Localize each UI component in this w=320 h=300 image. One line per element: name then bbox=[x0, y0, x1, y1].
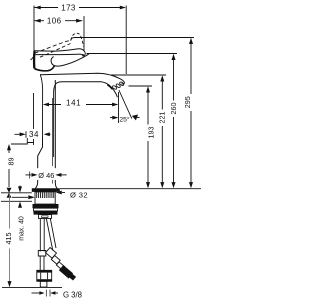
dim 106 text mask bbox=[44, 16, 65, 26]
dim 221 bottom arrow bbox=[160, 182, 164, 188]
hose2 elbow bbox=[46, 248, 57, 259]
handle top edge bbox=[34, 49, 77, 51]
dashed raised nose arc bbox=[71, 33, 81, 40]
svg-text:173: 173 bbox=[61, 3, 76, 12]
dim 173 right arrow bbox=[120, 6, 126, 10]
svg-text:260: 260 bbox=[169, 103, 178, 115]
basin left edge down bbox=[53, 92, 55, 157]
34 bracket to 89 leader bbox=[11, 138, 34, 145]
svg-text:max. 40: max. 40 bbox=[19, 216, 26, 241]
dim 141 line bbox=[48, 104, 113, 106]
dim 141 left arrow bbox=[43, 103, 49, 107]
dim 141 right arrow bbox=[112, 103, 118, 107]
svg-text:221: 221 bbox=[158, 112, 167, 124]
25deg vline bbox=[118, 92, 120, 123]
dim 106 right arrow bbox=[76, 19, 82, 23]
dim 221 top arrow bbox=[160, 75, 164, 81]
dim 193 bottom arrow bbox=[146, 182, 150, 188]
ext line x84 spout pivot bbox=[83, 16, 85, 51]
dim 106 left arrow bbox=[35, 19, 41, 23]
dim 141 text mask bbox=[61, 99, 86, 108]
deck lines left bbox=[1, 192, 32, 194]
dim 260 vline bbox=[173, 56, 175, 185]
valley dip between knob and dome bbox=[34, 66, 54, 71]
25deg left arrow bbox=[110, 117, 113, 119]
hose2 angled fitting bbox=[51, 256, 60, 265]
dia46 right arrow bbox=[61, 174, 67, 176]
ext line x42.5 bbox=[40, 75, 42, 137]
dim 415 vline bbox=[9, 194, 11, 285]
spout top bbox=[40, 73, 124, 84]
column inner line bbox=[52, 98, 54, 184]
dim 193 top arrow bbox=[146, 86, 150, 92]
mounting nut bbox=[33, 204, 59, 208]
ext line left x34 bbox=[31, 6, 35, 61]
leader L1 295 bbox=[71, 38, 195, 41]
svg-text:193: 193 bbox=[147, 127, 156, 139]
max40 bottom arrow bbox=[18, 202, 22, 208]
svg-text:Ø 46: Ø 46 bbox=[38, 171, 54, 180]
dia32 label arrow bbox=[62, 192, 65, 194]
max40 top arrow bbox=[19, 186, 21, 187]
column left edge bbox=[38, 137, 43, 168]
svg-text:295: 295 bbox=[183, 96, 192, 108]
nut lower block bbox=[39, 215, 52, 219]
dim 221 vline bbox=[161, 78, 163, 186]
svg-text:Ø 32: Ø 32 bbox=[70, 190, 88, 199]
G3/8 annotation bbox=[32, 292, 41, 294]
shank below deck bbox=[35, 192, 55, 204]
ext line x33.5 bbox=[33, 93, 35, 143]
base flange bbox=[32, 188, 60, 192]
dim 173 left arrow bbox=[35, 6, 41, 10]
dia32 dim left arrow bbox=[12, 196, 28, 198]
bottom ref line bbox=[2, 286, 62, 288]
leader L3 221 bbox=[111, 74, 166, 76]
dim 106 line bbox=[35, 20, 83, 22]
aerator ridges bbox=[112, 85, 117, 90]
25deg arc arrow right bbox=[133, 117, 140, 118]
deck line right bbox=[60, 188, 201, 190]
dashed raised handle line 1 bbox=[35, 40, 72, 53]
dim 260 bottom arrow bbox=[172, 182, 176, 188]
dim 173 text mask bbox=[58, 3, 79, 13]
column left upper bbox=[35, 180, 37, 189]
dim 193 vline bbox=[147, 89, 149, 186]
dia46 text mask bbox=[36, 168, 57, 180]
handle nose bbox=[78, 49, 86, 56]
hose 2 diagonal bbox=[46, 218, 56, 250]
handle knob face bbox=[33, 51, 36, 68]
svg-text:25°: 25° bbox=[119, 116, 130, 124]
dim 173 line bbox=[35, 7, 125, 9]
dim 295 vline bbox=[190, 40, 192, 185]
aerator tip cap bbox=[107, 85, 112, 90]
handle bottom edge bbox=[36, 54, 85, 55]
dim 295 top arrow bbox=[189, 38, 193, 44]
basin inner rim rounded rect bbox=[54, 82, 118, 98]
89 bowtie at deck bbox=[7, 188, 12, 198]
leader L4 193 bbox=[129, 85, 153, 87]
svg-text:141: 141 bbox=[66, 99, 81, 108]
leader L2 260 bbox=[87, 53, 178, 55]
svg-text:G 3/8: G 3/8 bbox=[63, 290, 82, 299]
hose 1 straight bbox=[40, 218, 44, 251]
dim 34 arrows bbox=[20, 132, 26, 136]
svg-text:106: 106 bbox=[47, 17, 62, 26]
hose1 end nut bbox=[37, 270, 52, 281]
column right edge bbox=[55, 80, 57, 188]
dashed raised handle line 2 bbox=[40, 44, 71, 58]
dim 260 top arrow bbox=[172, 54, 176, 60]
svg-text:34: 34 bbox=[29, 130, 39, 139]
25deg diagonal bbox=[119, 90, 132, 119]
ext line x126.5 handle tip bbox=[125, 6, 127, 75]
hose1 fitting bbox=[38, 251, 46, 257]
dim 295 bottom arrow bbox=[189, 182, 193, 188]
shank thread hatch bbox=[37, 192, 54, 198]
dome neck silhouette bbox=[51, 54, 89, 66]
svg-text:89: 89 bbox=[7, 158, 16, 166]
dim 89 vline bbox=[8, 146, 10, 188]
dia46 left arrow bbox=[26, 174, 32, 176]
svg-text:415: 415 bbox=[4, 233, 13, 245]
